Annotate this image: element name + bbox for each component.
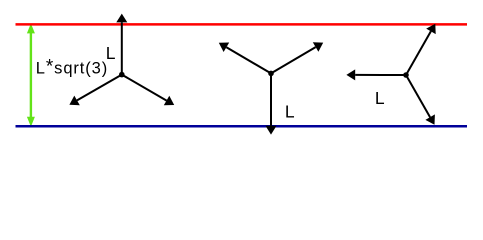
wire arm 3 of Y2 bbox=[271, 47, 316, 73]
svg-text:L: L bbox=[285, 102, 295, 122]
wire arm 2 of Y1 bbox=[77, 75, 122, 101]
svg-text:L: L bbox=[375, 88, 385, 108]
node Y2 center dot bbox=[268, 71, 274, 77]
trident Y2 bbox=[219, 42, 323, 134]
trident Y1 bbox=[69, 14, 174, 106]
svg-text:L*sqrt(3): L*sqrt(3) bbox=[36, 57, 108, 78]
trident Y3 bbox=[346, 24, 435, 125]
wire arm 2 of Y3 bbox=[406, 31, 431, 75]
node Y3 center dot bbox=[403, 72, 409, 78]
wire arm 1 of Y2 bbox=[270, 73, 272, 125]
blue bottom line bbox=[16, 125, 468, 128]
wire arm 1 of Y1 bbox=[121, 22, 123, 74]
red top line bbox=[16, 23, 468, 26]
dimension arrow L*sqrt(3) (green, double-headed) bbox=[27, 23, 35, 126]
node Y1 center dot bbox=[119, 72, 125, 78]
wire arm 3 of Y1 bbox=[122, 75, 167, 101]
wire arm 3 of Y3 bbox=[406, 75, 430, 117]
wire arm 2 of Y2 bbox=[226, 47, 271, 73]
wire arm 1 of Y3 bbox=[355, 74, 406, 76]
svg-text:L: L bbox=[106, 43, 116, 63]
